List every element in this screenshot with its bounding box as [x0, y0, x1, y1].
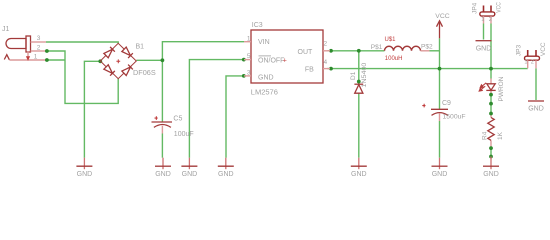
- node LED rail junction: [489, 67, 493, 71]
- svg-text:GND: GND: [182, 171, 198, 178]
- svg-text:100uH: 100uH: [385, 56, 403, 62]
- node IC pin3: [242, 74, 246, 78]
- bridge rectifier B1: [100, 43, 156, 78]
- svg-text:2: 2: [531, 60, 534, 66]
- svg-text:OUT: OUT: [298, 49, 314, 56]
- connector J1: [2, 26, 46, 61]
- node OUT stub: [329, 49, 333, 53]
- ground JP3: [528, 101, 544, 113]
- wire ON/OFF to GND riser: [189, 60, 243, 158]
- node D1 cathode: [357, 80, 361, 84]
- node LED cathode: [489, 93, 493, 97]
- wire OUT row: [327, 50, 384, 52]
- svg-text:2: 2: [324, 40, 328, 47]
- ground JP4: [476, 41, 492, 53]
- ground R4: [483, 157, 499, 178]
- svg-text:ON/OFF: ON/OFF: [258, 57, 284, 64]
- wire bridge plus to junction: [136, 59, 162, 61]
- svg-text:1: 1: [34, 53, 38, 60]
- diode B1c bottom-left: [104, 65, 115, 76]
- svg-text:VIN: VIN: [258, 39, 270, 46]
- node OUT/D1/L junction: [357, 49, 361, 53]
- wire C5 to GND: [161, 134, 163, 158]
- inductor U$1 100uH: [371, 37, 433, 62]
- svg-text:R4: R4: [481, 131, 488, 140]
- diode B1d bottom-right: [122, 65, 133, 76]
- LED arrows: [479, 83, 486, 91]
- diode B1b top-right: [122, 47, 133, 58]
- diode D1: [350, 62, 368, 93]
- svg-text:JP3: JP3: [516, 45, 523, 57]
- node R4 bottom: [489, 146, 493, 150]
- svg-text:P$1: P$1: [371, 44, 383, 51]
- wire IC GND pin down: [226, 76, 244, 158]
- node mid wire: [489, 102, 493, 106]
- ground IC3: [218, 158, 234, 178]
- svg-text:3: 3: [247, 70, 251, 77]
- capacitor C5: [152, 115, 194, 138]
- svg-text:JP4: JP4: [471, 2, 478, 14]
- wire bridge minus to GND: [84, 61, 100, 157]
- wire JP4 pin1 to GND: [483, 24, 485, 40]
- ground symbols along bottom: [76, 41, 544, 178]
- resistor R4: [481, 118, 504, 141]
- svg-text:FB: FB: [305, 67, 314, 74]
- svg-text:IC3: IC3: [252, 22, 263, 29]
- node J1 pin2: [45, 49, 49, 53]
- ground C5: [155, 158, 171, 178]
- svg-text:U$1: U$1: [385, 37, 397, 43]
- svg-text:GND: GND: [476, 45, 492, 52]
- power symbol VCC: [435, 13, 449, 38]
- svg-text:P$2: P$2: [421, 44, 433, 51]
- svg-text:PWRON: PWRON: [498, 76, 505, 101]
- IC IC3 LM2576: [244, 22, 330, 97]
- svg-text:5: 5: [247, 53, 251, 60]
- svg-text:GND: GND: [258, 74, 274, 81]
- svg-text:D1: D1: [350, 71, 357, 80]
- wire coil to VCC riser: [430, 50, 440, 52]
- node C9 rail junction: [438, 67, 442, 71]
- svg-text:2: 2: [37, 45, 41, 52]
- ground C9: [432, 158, 448, 178]
- wire J1 pin3 to bridge AC1: [46, 42, 118, 44]
- svg-text:+: +: [283, 57, 287, 64]
- svg-text:VCC: VCC: [495, 2, 502, 13]
- capacitor C9: [422, 100, 465, 121]
- svg-text:LM2576: LM2576: [251, 88, 278, 97]
- wire OUT down to D1: [358, 51, 360, 84]
- svg-text:GND: GND: [155, 171, 171, 178]
- svg-text:J1: J1: [2, 26, 10, 33]
- wire J1 pin2 to bridge AC2: [46, 51, 118, 103]
- wire VCC riser: [439, 38, 441, 109]
- svg-text:DF06S: DF06S: [133, 68, 156, 77]
- wire R4 to GND: [490, 140, 492, 148]
- svg-text:4: 4: [324, 59, 328, 66]
- svg-text:GND: GND: [77, 171, 93, 178]
- svg-text:1: 1: [481, 17, 484, 23]
- node bridge plus junction: [161, 58, 165, 62]
- node J1 pin1: [45, 58, 49, 62]
- svg-text:100uF: 100uF: [174, 131, 194, 138]
- node bridge minus: [98, 59, 102, 63]
- wire D1 anode to GND: [358, 93, 360, 158]
- wire FB rail: [327, 68, 527, 70]
- svg-text:1: 1: [247, 35, 251, 42]
- svg-text:2: 2: [489, 17, 492, 23]
- svg-text:VCC: VCC: [540, 42, 547, 56]
- node FB stub: [329, 67, 333, 71]
- svg-text:GND: GND: [483, 171, 499, 178]
- wire J1 pin1 tee: [46, 59, 65, 61]
- svg-text:C5: C5: [173, 115, 182, 122]
- wire junction up to VIN: [162, 42, 244, 122]
- svg-text:GND: GND: [432, 171, 448, 178]
- svg-text:3: 3: [37, 35, 41, 42]
- svg-text:1: 1: [524, 60, 527, 66]
- pin header JP4: [471, 2, 502, 24]
- ground ON/OFF: [181, 158, 197, 178]
- wire LED cathode chain: [490, 90, 492, 94]
- ground B1 minus: [76, 158, 92, 178]
- svg-text:1500uF: 1500uF: [443, 114, 466, 121]
- wire JP3 pin2 to GND: [535, 68, 537, 100]
- svg-text:C9: C9: [442, 100, 451, 107]
- svg-text:GND: GND: [218, 171, 234, 178]
- diode B1a top-left: [104, 47, 115, 58]
- svg-text:GND: GND: [528, 106, 544, 113]
- svg-text:GND: GND: [351, 171, 367, 178]
- node IC pin5: [242, 58, 246, 62]
- svg-text:1K: 1K: [497, 131, 504, 140]
- LED PWRON: [479, 76, 505, 101]
- ground D1: [351, 158, 367, 178]
- svg-text:1N5400: 1N5400: [361, 62, 368, 87]
- wire JP4 pin2 down to LED: [490, 24, 492, 79]
- pin header JP3: [516, 42, 547, 68]
- svg-text:B1: B1: [136, 43, 145, 50]
- svg-text:VCC: VCC: [435, 13, 449, 20]
- wire C9 to GND: [439, 121, 441, 158]
- node R4 top: [489, 112, 493, 116]
